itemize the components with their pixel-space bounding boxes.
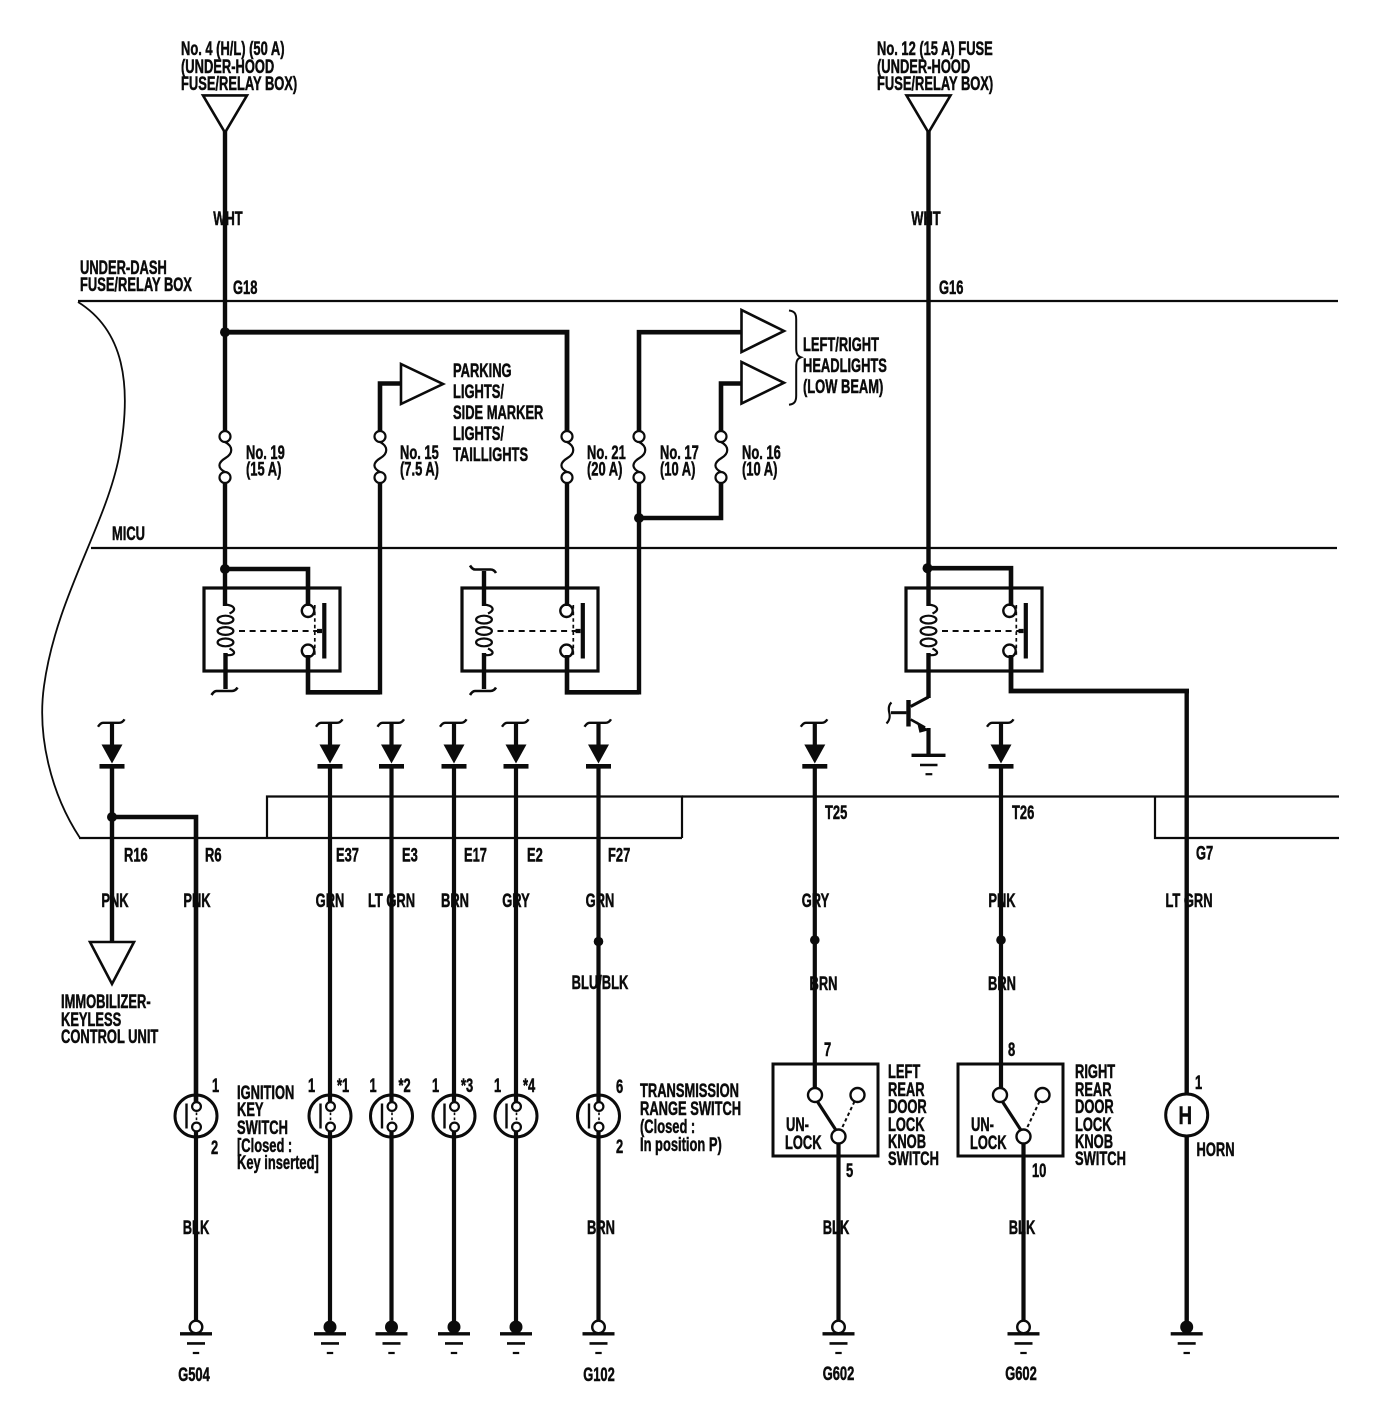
- node T25 colour-change dot: [810, 935, 820, 945]
- svg-text:H: H: [1179, 1101, 1193, 1129]
- svg-text:WHT: WHT: [911, 209, 940, 230]
- svg-text:LOCK: LOCK: [970, 1133, 1007, 1154]
- ground switch 4: [500, 1321, 532, 1354]
- svg-text:In position P): In position P): [640, 1135, 722, 1156]
- wire junction to fuse No.16 bottom: [639, 483, 721, 518]
- svg-text:LIGHTS/: LIGHTS/: [453, 424, 504, 445]
- svg-text:SWITCH: SWITCH: [1075, 1149, 1126, 1170]
- wire fuse No.15 top to parking lights triangle: [380, 384, 401, 432]
- relay K1 armature dashed: [314, 605, 316, 657]
- right door switch contacts: [993, 1088, 1050, 1144]
- svg-text:LOCK: LOCK: [785, 1133, 822, 1154]
- svg-text:1: 1: [432, 1076, 439, 1097]
- wire fuse No.17 top to left/right headlights triangle: [639, 332, 742, 431]
- node F27 colour-change dot: [594, 937, 604, 947]
- wire T25 GRY/BRN to left door lock switch: [813, 765, 817, 1089]
- fuse No.19 symbol: [219, 431, 231, 483]
- svg-text:E17: E17: [464, 845, 487, 866]
- wire relay K2 contact output: [567, 655, 639, 692]
- node R16 junction dot: [107, 812, 117, 822]
- wire E37 GRN to switch 1: [328, 765, 332, 1103]
- wire switch 3 to ground: [452, 1132, 456, 1324]
- diode T25: [801, 719, 828, 766]
- diode R16: [98, 719, 125, 766]
- ground horn: [1171, 1321, 1203, 1354]
- svg-text:*3: *3: [461, 1076, 473, 1097]
- parking lights triangle: [401, 364, 443, 404]
- transmission range switch S6: [578, 1095, 620, 1137]
- fuse No.16 symbol: [715, 431, 727, 483]
- wire fuse No.16 top to headlight triangle 2: [721, 384, 742, 432]
- wire switch 2 to ground: [389, 1132, 393, 1324]
- relay K2 box: [462, 588, 598, 671]
- switch *4: [495, 1095, 537, 1137]
- wire left door lock switch to ground G602: [836, 1144, 840, 1322]
- svg-text:(7.5 A): (7.5 A): [400, 459, 439, 480]
- wire E17 BRN to switch 3: [452, 765, 456, 1103]
- svg-text:GRN: GRN: [586, 891, 615, 912]
- svg-text:G18: G18: [233, 278, 257, 299]
- wire fuse No.21 to relay K2 contact: [565, 483, 569, 606]
- svg-text:*4: *4: [523, 1076, 535, 1097]
- switch *3: [433, 1095, 475, 1137]
- svg-text:HORN: HORN: [1197, 1140, 1235, 1161]
- svg-text:SWITCH: SWITCH: [888, 1149, 939, 1170]
- svg-text:(LOW BEAM): (LOW BEAM): [803, 377, 883, 398]
- wire fuse No.17 bottom to junction: [637, 483, 641, 695]
- switch *1: [309, 1095, 351, 1137]
- wire T26 PNK/BRN to right door lock switch: [999, 765, 1003, 1089]
- svg-text:T26: T26: [1012, 803, 1034, 824]
- diode E2: [502, 719, 529, 766]
- svg-text:G602: G602: [1005, 1364, 1037, 1385]
- left rear door lock knob switch box: [773, 1064, 878, 1156]
- svg-text:GRN: GRN: [316, 891, 345, 912]
- fuse No.4 (H/L) supply triangle: [203, 95, 247, 132]
- svg-text:G602: G602: [823, 1364, 855, 1385]
- ground G102: [583, 1321, 615, 1353]
- wire R16 junction across to R6: [112, 817, 196, 1103]
- relay K3 coil: [921, 605, 937, 656]
- node fuse16/17 junction dot: [634, 513, 644, 523]
- connector bus bottom edge left: [79, 837, 682, 839]
- relay K2 coil feed T-mark: [470, 566, 496, 574]
- svg-text:10: 10: [1032, 1161, 1046, 1182]
- relay K2 dashed link: [498, 630, 576, 632]
- wire diode R16 anode: [110, 724, 114, 745]
- svg-text:Key inserted]: Key inserted]: [237, 1153, 319, 1174]
- svg-text:E37: E37: [336, 845, 359, 866]
- svg-text:FUSE/RELAY BOX): FUSE/RELAY BOX): [181, 74, 297, 95]
- wire WHT G16 from No.12 fuse to relay K3 coil: [926, 131, 930, 606]
- wire thick bus from node G18 to fuse No.21: [223, 332, 567, 431]
- node G18 relay branch junction dot: [220, 564, 230, 574]
- fuse No.15 symbol: [374, 431, 386, 483]
- wire relay K3 contact feed branch: [928, 568, 1012, 606]
- connector bus box left section: [267, 797, 682, 839]
- svg-text:7: 7: [824, 1040, 831, 1061]
- svg-text:(10 A): (10 A): [660, 459, 695, 480]
- svg-text:1: 1: [494, 1076, 501, 1097]
- wire diode R16 cathode to immobilizer triangle: [110, 765, 114, 941]
- diode F27: [585, 719, 612, 766]
- wire diode F27 anode: [596, 724, 600, 745]
- wire relay K3 contact output to LT GRN vertical: [1011, 655, 1189, 691]
- svg-text:1: 1: [308, 1076, 315, 1097]
- svg-text:1: 1: [1195, 1073, 1202, 1094]
- svg-text:BRN: BRN: [441, 891, 469, 912]
- ground G602 right: [1008, 1321, 1040, 1353]
- wire F27 GRN/BLU-BLK to transmission range switch: [596, 765, 600, 1103]
- svg-text:BRN: BRN: [810, 974, 838, 995]
- connector bus top line middle-right: [682, 795, 1339, 797]
- svg-text:8: 8: [1008, 1040, 1015, 1061]
- svg-text:T25: T25: [825, 803, 847, 824]
- svg-text:PNK: PNK: [988, 891, 1015, 912]
- svg-text:2: 2: [616, 1137, 623, 1158]
- relay K3 armature dashed: [1015, 605, 1017, 657]
- diode E37: [316, 719, 343, 766]
- wire diode T25 anode: [813, 724, 817, 745]
- diode T26: [987, 719, 1014, 766]
- wire transmission range switch to ground G102: [596, 1132, 600, 1322]
- svg-text:PNK: PNK: [183, 891, 210, 912]
- MICU boundary line: [91, 547, 1337, 549]
- node T26 colour-change dot: [996, 935, 1006, 945]
- relay K3 contact bar: [1019, 603, 1026, 659]
- svg-text:GRY: GRY: [802, 891, 830, 912]
- svg-text:SIDE MARKER: SIDE MARKER: [453, 403, 544, 424]
- fuse No.12 supply triangle: [907, 95, 951, 132]
- left torn-edge boundary curve: [42, 302, 125, 838]
- svg-text:PARKING: PARKING: [453, 361, 512, 382]
- wire diode E2 anode: [514, 724, 518, 745]
- ground G504: [180, 1321, 212, 1353]
- ground G602 left: [823, 1321, 855, 1353]
- svg-text:1: 1: [212, 1076, 219, 1097]
- svg-text:*2: *2: [399, 1076, 411, 1097]
- fuse No.17 symbol: [633, 431, 645, 483]
- relay K3 box: [906, 588, 1042, 671]
- relay K3 dashed link: [942, 630, 1019, 632]
- relay K3 contact points: [1003, 605, 1015, 657]
- svg-text:1: 1: [370, 1076, 377, 1097]
- wire E2 GRY to switch 4: [514, 765, 518, 1103]
- svg-text:LIGHTS/: LIGHTS/: [453, 382, 504, 403]
- relay K2 coil: [476, 605, 492, 656]
- svg-text:TAILLIGHTS: TAILLIGHTS: [453, 445, 528, 466]
- transistor Q1 base lead: [891, 711, 906, 714]
- svg-text:(20 A): (20 A): [587, 459, 622, 480]
- svg-text:LT GRN: LT GRN: [1165, 891, 1212, 912]
- svg-text:PNK: PNK: [101, 891, 128, 912]
- relay K1 coil ground T-mark: [212, 688, 238, 696]
- svg-text:BLK: BLK: [183, 1218, 210, 1239]
- svg-text:6: 6: [616, 1077, 623, 1098]
- wire switch 1 to ground: [328, 1132, 332, 1324]
- node G16 relay branch junction dot: [923, 563, 933, 573]
- wire relay K1 contact output to fuse No.15 line: [308, 655, 380, 692]
- connector bus right section step: [1155, 797, 1339, 839]
- svg-text:(15 A): (15 A): [246, 459, 281, 480]
- svg-text:BLK: BLK: [823, 1218, 850, 1239]
- svg-text:R6: R6: [205, 845, 222, 866]
- switch *2: [371, 1095, 413, 1137]
- ignition key switch S1: [175, 1095, 217, 1137]
- wire switch 4 to ground: [514, 1132, 518, 1324]
- horn: [1166, 1094, 1208, 1136]
- svg-text:FUSE/RELAY BOX: FUSE/RELAY BOX: [80, 275, 192, 296]
- relay K1 contact points: [302, 605, 314, 657]
- svg-text:G7: G7: [1196, 843, 1213, 864]
- svg-text:CONTROL UNIT: CONTROL UNIT: [61, 1027, 158, 1048]
- wire E3 LT GRN to switch 2: [389, 765, 393, 1103]
- headlight triangle upper: [742, 310, 785, 352]
- wire diode E17 anode: [452, 724, 456, 745]
- transistor Q1 emitter wire: [926, 728, 930, 754]
- diode E17: [440, 719, 467, 766]
- right rear door lock knob switch box: [958, 1064, 1063, 1156]
- relay K1 dashed link: [239, 630, 317, 632]
- relay K1 contact bar: [317, 603, 324, 659]
- svg-text:*1: *1: [337, 1076, 349, 1097]
- transistor Q1 collector lead: [911, 697, 929, 707]
- svg-text:G16: G16: [939, 278, 963, 299]
- relay K2 armature dashed: [572, 605, 574, 657]
- ground switch 1: [314, 1321, 346, 1354]
- svg-text:WHT: WHT: [213, 209, 242, 230]
- svg-text:MICU: MICU: [112, 524, 145, 545]
- transistor Q1 base bar: [906, 700, 910, 727]
- diode E3: [378, 719, 405, 766]
- svg-text:R16: R16: [124, 845, 148, 866]
- svg-text:GRY: GRY: [502, 891, 530, 912]
- wire relay K1 coil feed branch to contact: [225, 569, 308, 606]
- node G18 junction dot: [220, 327, 230, 337]
- wire fuse No.15 bottom down: [378, 483, 382, 695]
- transistor Q1 emitter lead with arrow: [911, 720, 925, 728]
- svg-text:5: 5: [846, 1161, 853, 1182]
- wire horn to ground: [1184, 1135, 1188, 1322]
- wire LT GRN down to horn: [1184, 691, 1188, 1095]
- wire diode E3 anode: [389, 724, 393, 745]
- svg-text:2: 2: [211, 1138, 218, 1159]
- wire G18 down through fuse No.19 to relay K1: [223, 483, 227, 606]
- relay K2 contact points: [560, 605, 572, 657]
- headlight triangle lower: [742, 362, 785, 404]
- wire relay K1 coil bottom to T-mark: [223, 653, 227, 689]
- wire relay K2 coil top T-mark: [482, 571, 486, 606]
- wire diode T26 anode: [999, 724, 1003, 745]
- svg-text:BLK: BLK: [1009, 1218, 1036, 1239]
- under-dash fuse/relay box top boundary line: [78, 300, 1338, 302]
- svg-text:LEFT/RIGHT: LEFT/RIGHT: [803, 335, 879, 356]
- svg-text:FUSE/RELAY BOX): FUSE/RELAY BOX): [877, 74, 993, 95]
- svg-text:G504: G504: [178, 1365, 210, 1386]
- ground switch 3: [438, 1321, 470, 1354]
- svg-text:LT GRN: LT GRN: [368, 891, 415, 912]
- wire relay K2 coil bottom to T-mark: [482, 653, 486, 689]
- wire right door lock switch to ground G602: [1021, 1144, 1025, 1322]
- svg-text:BRN: BRN: [988, 974, 1016, 995]
- immobilizer-keyless control unit triangle: [90, 942, 134, 984]
- relay K2 coil ground T-mark: [470, 688, 496, 696]
- svg-text:F27: F27: [608, 845, 630, 866]
- svg-text:HEADLIGHTS: HEADLIGHTS: [803, 356, 887, 377]
- left door switch contacts: [808, 1088, 865, 1144]
- relay K2 contact bar: [576, 603, 583, 659]
- wire ignition key switch to ground G504: [194, 1132, 198, 1322]
- svg-text:G102: G102: [583, 1365, 615, 1386]
- relay K1 box: [204, 588, 340, 671]
- fuse No.21 symbol: [561, 431, 573, 483]
- transistor Q1 ground symbol: [912, 754, 946, 757]
- wire relay K3 coil to transistor collector: [926, 653, 930, 698]
- ground switch 2: [376, 1321, 408, 1354]
- svg-text:BRN: BRN: [587, 1218, 615, 1239]
- svg-text:BLU/BLK: BLU/BLK: [572, 973, 629, 994]
- transistor Q1 emitter arrowhead: [917, 721, 929, 733]
- wire diode E37 anode: [328, 724, 332, 745]
- relay K1 coil: [218, 605, 234, 656]
- svg-text:(10 A): (10 A): [742, 459, 777, 480]
- wire WHT from No.4 fuse to G18: [223, 131, 227, 432]
- svg-text:E3: E3: [402, 845, 418, 866]
- svg-text:E2: E2: [527, 845, 543, 866]
- headlights brace: [789, 311, 801, 405]
- transistor Q1 base T-mark: [887, 703, 892, 724]
